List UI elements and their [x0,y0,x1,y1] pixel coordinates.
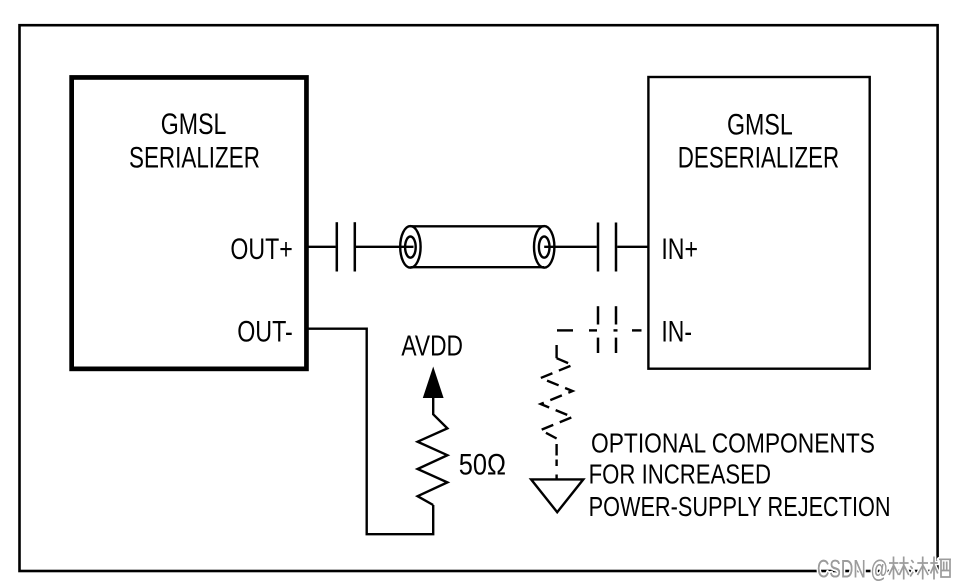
svg-text:OPTIONAL COMPONENTS: OPTIONAL COMPONENTS [591,428,875,459]
svg-text:AVDD: AVDD [401,330,463,362]
svg-text:GMSL: GMSL [727,108,793,141]
svg-text:DESERIALIZER: DESERIALIZER [678,141,839,174]
svg-text:FOR INCREASED: FOR INCREASED [589,459,771,490]
svg-text:POWER-SUPPLY REJECTION: POWER-SUPPLY REJECTION [589,491,891,522]
svg-text:IN-: IN- [661,315,692,348]
svg-text:CSDN @: CSDN @ [817,556,888,584]
svg-text:SERIALIZER: SERIALIZER [129,141,260,174]
svg-text:IN+: IN+ [661,233,698,266]
svg-text:50Ω: 50Ω [459,449,506,482]
svg-text:OUT-: OUT- [237,315,293,348]
svg-text:OUT+: OUT+ [230,233,292,266]
svg-text:GMSL: GMSL [161,108,227,141]
